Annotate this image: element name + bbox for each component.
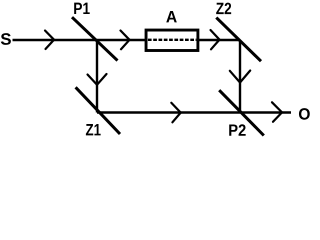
beam splitter P1 <box>72 17 118 60</box>
wire Z2 to P2 (right vertical) <box>239 40 241 113</box>
label Z1 <box>86 124 101 135</box>
sample cell A (box) <box>146 30 198 50</box>
arrow on wire S to P1 <box>45 31 54 50</box>
wire A to Z2 <box>199 39 241 41</box>
wire P2 to O <box>240 111 291 113</box>
arrow on wire P1 to Z1 <box>88 74 107 85</box>
wire P1 to Z1 (left vertical) <box>96 40 98 113</box>
label P1 <box>74 3 90 14</box>
label Z2 <box>216 3 231 15</box>
arrow on wire P2 to O <box>272 102 282 122</box>
mirror Z1 <box>76 87 120 134</box>
beam splitter P2 <box>219 90 264 135</box>
label A <box>166 11 177 22</box>
arrow on wire Z2 to P2 <box>230 71 250 83</box>
wire P1 to A <box>97 39 146 41</box>
mirror Z2 <box>216 18 261 62</box>
arrow on wire Z1 to P2 <box>171 103 180 123</box>
dashed beam inside A <box>148 39 197 41</box>
arrow on wire P1 to A <box>121 31 130 50</box>
label P2 <box>229 124 245 136</box>
wire S to P1 (top beam) <box>13 39 98 41</box>
output label O <box>299 108 310 120</box>
arrow on wire A to Z2 <box>211 30 220 49</box>
source label S <box>1 33 11 45</box>
wire Z1 to P2 (bottom beam) <box>97 111 240 113</box>
